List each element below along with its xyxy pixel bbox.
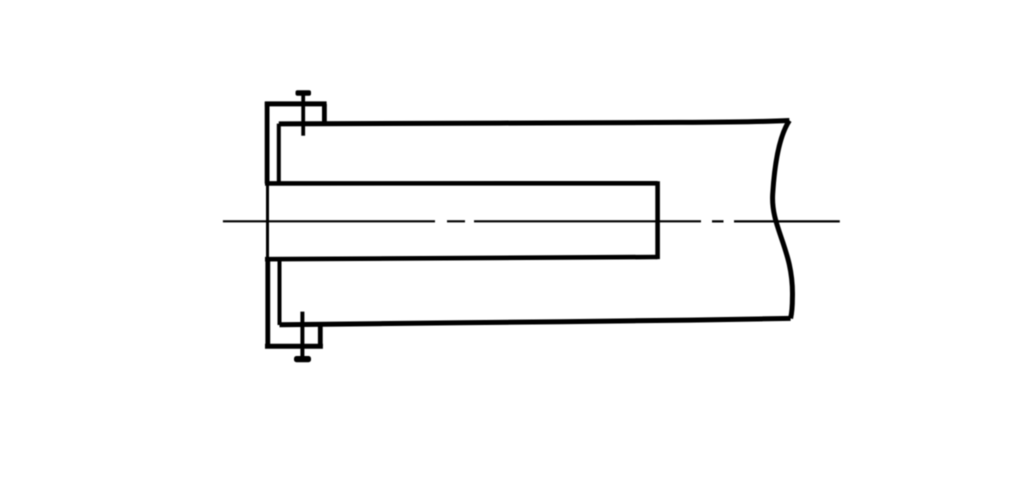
flange bottom face line [265, 344, 323, 349]
flange top tab right edge [322, 104, 327, 124]
bore bottom line [265, 257, 658, 259]
bore right end edge [655, 181, 660, 259]
body left edge upper segment [277, 124, 281, 184]
body top outline [279, 121, 790, 124]
top set screw stem [301, 95, 305, 136]
flange left face line across bore opening [266, 184, 269, 259]
top set screw head [296, 90, 312, 96]
bottom set screw head [294, 356, 311, 362]
body left edge lower segment [278, 259, 282, 325]
flange bottom tab right edge [318, 325, 323, 346]
break line (wavy S-curve at right end of shaft) [773, 121, 793, 319]
flange top face line [265, 101, 327, 106]
flange left edge upper segment [265, 102, 270, 184]
body bottom outline [280, 318, 791, 324]
bottom set screw stem [300, 312, 304, 358]
flange left edge lower segment [265, 259, 270, 346]
bore top line [265, 181, 658, 186]
center line (dash-dot axis) [223, 220, 840, 222]
